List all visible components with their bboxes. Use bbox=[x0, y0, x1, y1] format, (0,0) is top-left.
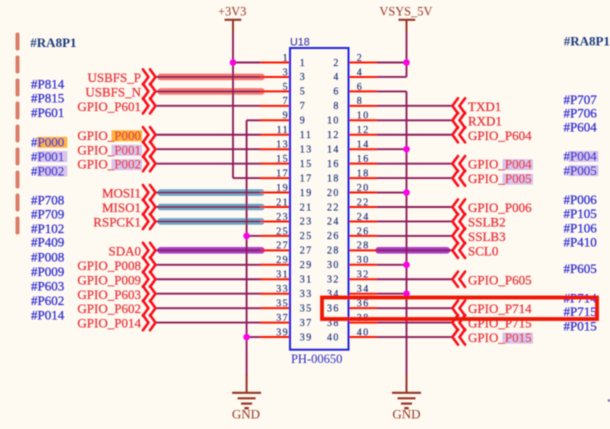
svg-text:18: 18 bbox=[357, 169, 370, 180]
svg-text:GPIO_P004: GPIO_P004 bbox=[468, 157, 532, 172]
svg-text:#P105: #P105 bbox=[564, 206, 597, 221]
svg-text:22: 22 bbox=[327, 202, 340, 213]
svg-text:12: 12 bbox=[327, 130, 340, 141]
svg-text:23: 23 bbox=[276, 212, 289, 223]
svg-text:8: 8 bbox=[333, 101, 339, 112]
svg-text:20: 20 bbox=[327, 188, 340, 199]
svg-text:36: 36 bbox=[357, 299, 370, 310]
svg-text:SDA0: SDA0 bbox=[108, 243, 141, 258]
svg-text:SSLB3: SSLB3 bbox=[468, 229, 506, 244]
svg-text:22: 22 bbox=[357, 197, 370, 208]
svg-text:26: 26 bbox=[357, 226, 370, 237]
svg-text:29: 29 bbox=[276, 255, 289, 266]
svg-text:#P706: #P706 bbox=[564, 106, 598, 121]
svg-text:GPIO_P601: GPIO_P601 bbox=[77, 99, 141, 114]
svg-text:30: 30 bbox=[357, 255, 370, 266]
svg-text:13: 13 bbox=[300, 145, 313, 156]
svg-text:14: 14 bbox=[357, 140, 370, 151]
svg-text:28: 28 bbox=[327, 246, 340, 257]
svg-text:35: 35 bbox=[276, 299, 289, 310]
svg-text:8: 8 bbox=[357, 96, 363, 107]
svg-text:GPIO_P015: GPIO_P015 bbox=[468, 330, 532, 345]
svg-text:18: 18 bbox=[327, 173, 340, 184]
svg-text:GPIO_P009: GPIO_P009 bbox=[77, 272, 141, 287]
svg-text:TXD1: TXD1 bbox=[468, 99, 501, 114]
svg-text:37: 37 bbox=[300, 318, 313, 329]
svg-text:#P106: #P106 bbox=[564, 221, 598, 236]
svg-text:19: 19 bbox=[276, 183, 289, 194]
svg-text:#P602: #P602 bbox=[31, 293, 64, 308]
svg-text:32: 32 bbox=[327, 275, 340, 286]
svg-text:26: 26 bbox=[327, 231, 340, 242]
svg-text:#P409: #P409 bbox=[31, 235, 64, 250]
svg-text:USBFS_N: USBFS_N bbox=[85, 85, 141, 100]
svg-text:13: 13 bbox=[276, 140, 289, 151]
svg-text:1: 1 bbox=[283, 53, 289, 64]
svg-text:27: 27 bbox=[276, 241, 289, 252]
svg-text:5: 5 bbox=[300, 87, 306, 98]
svg-text:VSYS_5V: VSYS_5V bbox=[379, 4, 432, 18]
svg-text:GND: GND bbox=[232, 407, 260, 422]
svg-text:#P009: #P009 bbox=[31, 264, 64, 279]
svg-text:GPIO_P000: GPIO_P000 bbox=[77, 128, 141, 143]
svg-text:#P102: #P102 bbox=[31, 221, 64, 236]
svg-text:#P601: #P601 bbox=[31, 105, 64, 120]
svg-text:33: 33 bbox=[276, 284, 289, 295]
svg-text:37: 37 bbox=[276, 313, 289, 324]
svg-text:+3V3: +3V3 bbox=[218, 4, 246, 18]
svg-text:36: 36 bbox=[327, 303, 340, 314]
svg-text:#P000: #P000 bbox=[31, 135, 64, 150]
svg-text:USBFS_P: USBFS_P bbox=[88, 70, 141, 85]
svg-text:27: 27 bbox=[300, 246, 313, 257]
svg-text:11: 11 bbox=[277, 125, 289, 136]
svg-text:2: 2 bbox=[357, 53, 363, 64]
svg-text:#P005: #P005 bbox=[564, 163, 597, 178]
svg-text:19: 19 bbox=[300, 188, 313, 199]
svg-text:39: 39 bbox=[300, 332, 313, 343]
svg-text:#P814: #P814 bbox=[31, 76, 65, 91]
svg-text:#RA8P1: #RA8P1 bbox=[30, 35, 76, 50]
svg-text:SCL0: SCL0 bbox=[468, 243, 498, 258]
svg-text:7: 7 bbox=[283, 96, 289, 107]
svg-text:25: 25 bbox=[276, 226, 289, 237]
svg-text:15: 15 bbox=[300, 159, 313, 170]
svg-text:29: 29 bbox=[300, 260, 313, 271]
svg-text:#P707: #P707 bbox=[564, 92, 598, 107]
svg-text:31: 31 bbox=[300, 275, 313, 286]
svg-text:12: 12 bbox=[357, 125, 370, 136]
svg-text:MISO1: MISO1 bbox=[102, 200, 141, 215]
svg-text:#P603: #P603 bbox=[31, 279, 64, 294]
svg-text:GPIO_P005: GPIO_P005 bbox=[468, 171, 532, 186]
svg-text:#P014: #P014 bbox=[31, 308, 65, 323]
svg-text:#P410: #P410 bbox=[564, 235, 597, 250]
svg-text:33: 33 bbox=[300, 289, 313, 300]
svg-text:31: 31 bbox=[276, 270, 289, 281]
svg-text:6: 6 bbox=[333, 87, 339, 98]
svg-text:MOSI1: MOSI1 bbox=[102, 186, 141, 201]
svg-text:15: 15 bbox=[276, 154, 289, 165]
svg-text:GND: GND bbox=[392, 407, 420, 422]
svg-text:21: 21 bbox=[300, 202, 313, 213]
svg-text:28: 28 bbox=[357, 241, 370, 252]
svg-text:GPIO_P001: GPIO_P001 bbox=[77, 142, 141, 157]
svg-text:SSLB2: SSLB2 bbox=[468, 215, 506, 230]
svg-text:25: 25 bbox=[300, 231, 313, 242]
svg-text:RSPCK1: RSPCK1 bbox=[93, 215, 141, 230]
svg-text:#P004: #P004 bbox=[564, 149, 598, 164]
svg-text:GPIO_P006: GPIO_P006 bbox=[468, 200, 532, 215]
svg-text:#P605: #P605 bbox=[564, 261, 597, 276]
svg-text:16: 16 bbox=[327, 159, 340, 170]
svg-text:14: 14 bbox=[327, 145, 340, 156]
svg-text:GPIO_P605: GPIO_P605 bbox=[468, 272, 532, 287]
svg-text:#P815: #P815 bbox=[31, 90, 64, 105]
svg-text:GPIO_P714: GPIO_P714 bbox=[468, 301, 532, 316]
svg-text:#P001: #P001 bbox=[31, 149, 64, 164]
svg-text:40: 40 bbox=[357, 327, 370, 338]
svg-text:1: 1 bbox=[300, 58, 306, 69]
svg-text:40: 40 bbox=[327, 332, 340, 343]
svg-text:RXD1: RXD1 bbox=[468, 113, 502, 128]
svg-text:34: 34 bbox=[357, 284, 370, 295]
svg-text:10: 10 bbox=[357, 111, 370, 122]
svg-text:#P008: #P008 bbox=[31, 250, 64, 265]
svg-text:#RA8P1: #RA8P1 bbox=[564, 33, 610, 48]
svg-text:23: 23 bbox=[300, 217, 313, 228]
svg-text:GPIO_P014: GPIO_P014 bbox=[77, 316, 141, 331]
svg-text:21: 21 bbox=[276, 197, 289, 208]
svg-text:17: 17 bbox=[300, 173, 313, 184]
svg-text:10: 10 bbox=[327, 116, 340, 127]
svg-text:GPIO_P008: GPIO_P008 bbox=[77, 258, 141, 273]
svg-text:2: 2 bbox=[333, 58, 339, 69]
svg-text:24: 24 bbox=[327, 217, 340, 228]
svg-text:6: 6 bbox=[357, 82, 363, 93]
svg-text:32: 32 bbox=[357, 270, 370, 281]
svg-text:39: 39 bbox=[276, 327, 289, 338]
svg-text:16: 16 bbox=[357, 154, 370, 165]
svg-text:4: 4 bbox=[357, 67, 363, 78]
svg-text:4: 4 bbox=[333, 72, 339, 83]
svg-text:3: 3 bbox=[300, 72, 306, 83]
svg-text:35: 35 bbox=[300, 303, 313, 314]
svg-text:9: 9 bbox=[283, 111, 289, 122]
svg-text:17: 17 bbox=[276, 169, 289, 180]
svg-text:GPIO_P602: GPIO_P602 bbox=[77, 301, 141, 316]
svg-text:30: 30 bbox=[327, 260, 340, 271]
svg-text:20: 20 bbox=[357, 183, 370, 194]
svg-text:#P709: #P709 bbox=[31, 206, 64, 221]
svg-text:3: 3 bbox=[283, 67, 289, 78]
svg-text:GPIO_P604: GPIO_P604 bbox=[468, 128, 532, 143]
svg-text:7: 7 bbox=[300, 101, 306, 112]
svg-text:9: 9 bbox=[300, 116, 306, 127]
svg-text:#P715: #P715 bbox=[564, 304, 597, 319]
svg-text:PH-00650: PH-00650 bbox=[291, 352, 342, 366]
svg-text:#P002: #P002 bbox=[31, 163, 64, 178]
svg-text:11: 11 bbox=[300, 130, 312, 141]
svg-text:24: 24 bbox=[357, 212, 370, 223]
svg-text:5: 5 bbox=[283, 82, 289, 93]
svg-text:#P604: #P604 bbox=[564, 120, 598, 135]
svg-text:GPIO_P002: GPIO_P002 bbox=[77, 157, 141, 172]
svg-text:GPIO_P603: GPIO_P603 bbox=[77, 287, 141, 302]
svg-text:U18: U18 bbox=[290, 36, 310, 48]
